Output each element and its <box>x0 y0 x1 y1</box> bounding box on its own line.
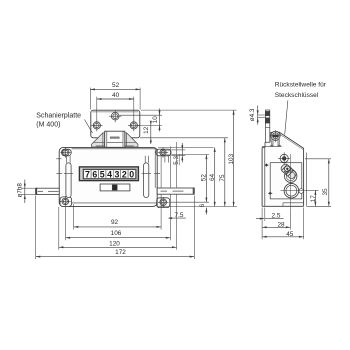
mounting tab top-right <box>156 149 171 156</box>
dimension 172 <box>36 256 195 258</box>
extension line 120 left <box>58 207 60 250</box>
dimension 75 <box>224 138 226 207</box>
body right edge through top tab <box>156 149 158 156</box>
logo plate <box>100 184 130 191</box>
dimension 64 <box>214 147 216 206</box>
hinge plate inner top line <box>92 111 138 113</box>
extension line 92 left <box>73 204 75 230</box>
dimension 17 <box>314 190 316 206</box>
body top seam line <box>72 148 156 150</box>
screw, body bottom-left <box>60 196 71 207</box>
side body left edge <box>261 147 263 206</box>
screw housing left wall <box>269 132 271 142</box>
side inner panel <box>270 163 302 199</box>
side body base seam <box>262 146 281 148</box>
side body roof slant <box>279 132 304 148</box>
dimension 106 <box>66 237 171 239</box>
extension line 120 right <box>176 142 178 188</box>
extension lines for dim 40 <box>96 97 98 121</box>
slot center tick left edge <box>56 173 62 175</box>
screw, body bottom-right <box>158 197 169 208</box>
screw, side mechanism top <box>280 154 288 162</box>
extension line side right edge down <box>303 208 305 240</box>
front view: counter housing body <box>59 147 157 206</box>
extension line plate top (dim 103) <box>141 109 237 111</box>
svg-text:106: 106 <box>111 230 122 237</box>
mounting tab bottom-left <box>60 197 72 207</box>
dimension 52 (vertical) <box>205 155 207 203</box>
svg-text:28: 28 <box>277 221 285 228</box>
extension line center screw (dim 10) <box>120 114 163 116</box>
hinge mount right wedge <box>125 133 138 147</box>
leader line Schanierplatte <box>85 120 93 134</box>
counter display outer frame <box>79 167 138 181</box>
tab screw channel below top-right tab <box>164 156 166 163</box>
reset shaft knurl lower <box>265 118 269 124</box>
svg-text:45: 45 <box>286 231 294 238</box>
extension line wheel center right <box>306 189 319 191</box>
leader line Rueckstellwelle <box>285 100 288 134</box>
pedestal foot left <box>270 145 274 146</box>
hinge mount wedge edge right <box>126 133 128 146</box>
side body cover plate line (2.5) <box>264 148 266 207</box>
right guide slot <box>144 163 149 198</box>
dimension 4.3 line <box>257 106 259 125</box>
hinge mount wedge edge left <box>102 133 104 146</box>
reset shaft section tick <box>265 126 269 128</box>
digit cells 7654320 <box>84 170 91 179</box>
left shaft end cap <box>36 188 38 195</box>
tab channel lines top-left <box>66 156 68 163</box>
screw cross tick horizontal <box>270 135 280 137</box>
mounting tab top-left <box>62 149 72 156</box>
extension line 172 left <box>35 196 37 260</box>
reset shaft (Rueckstellwelle) <box>265 110 269 142</box>
svg-text:6: 6 <box>92 170 97 180</box>
top screw slot dark bar <box>273 135 278 138</box>
big wheel inner <box>286 185 297 196</box>
right drive shaft <box>157 188 194 194</box>
big wheel outer <box>284 183 299 198</box>
screw, hinge plate left <box>91 120 103 132</box>
side body right edge <box>303 148 305 206</box>
extension line 172 right <box>193 196 195 260</box>
dimension 52 (top) <box>90 88 140 90</box>
right shaft centerline dashes <box>161 190 168 192</box>
top screw head side view <box>271 131 280 140</box>
svg-text:2.5: 2.5 <box>272 212 281 219</box>
body right edge through bottom tab <box>156 198 158 207</box>
mounting tab bottom-right <box>157 198 170 208</box>
left guide slot <box>66 163 71 198</box>
dimension 2.5 arrow and leader <box>256 218 264 220</box>
svg-text:0: 0 <box>129 170 134 180</box>
side body bottom seam <box>283 202 304 204</box>
orientation mark lower <box>269 192 272 195</box>
extension line 106 left <box>65 207 67 240</box>
extension line cover plate down <box>264 208 266 222</box>
actuator nub <box>299 189 304 194</box>
svg-text:75: 75 <box>219 174 226 182</box>
middle cam circle outer <box>285 170 297 182</box>
svg-text:ø4.3: ø4.3 <box>249 108 256 121</box>
side body bottom <box>262 205 304 207</box>
svg-text:40: 40 <box>112 92 120 99</box>
svg-text:2: 2 <box>122 170 127 180</box>
dimension 12 line <box>150 122 152 145</box>
hinge knuckle slot dash <box>110 137 119 139</box>
svg-text:7.5: 7.5 <box>175 212 184 219</box>
svg-text:ø7h8: ø7h8 <box>17 183 24 198</box>
svg-text:64: 64 <box>209 173 216 181</box>
extension line top screw center right <box>305 158 331 160</box>
screw housing cap <box>270 131 279 133</box>
hinge mount stack line right <box>125 141 136 143</box>
pedestal leg left <box>271 139 273 146</box>
dimension 120 <box>59 246 177 248</box>
dimension 28 <box>262 226 290 228</box>
counter display inner area <box>83 169 136 179</box>
body right seam line <box>154 149 156 188</box>
svg-text:Steckschlüssel: Steckschlüssel <box>275 92 319 99</box>
extension line plate bottom (dim 12/75) <box>140 137 228 139</box>
svg-text:92: 92 <box>111 219 119 226</box>
svg-text:Schanierplatte: Schanierplatte <box>36 112 81 119</box>
orientation mark upper <box>265 163 268 166</box>
svg-text:3: 3 <box>115 170 120 180</box>
extension line tab slot (dim 52 vertical) <box>171 154 209 156</box>
right shaft end cap <box>192 188 194 195</box>
slot center tick left slot <box>64 173 73 175</box>
svg-text:17: 17 <box>310 195 317 203</box>
dimension 10 line <box>159 109 161 132</box>
hinge mount left wedge <box>92 133 105 147</box>
dimension 35 <box>328 159 330 207</box>
tab slot lines top-right <box>166 149 170 151</box>
side body step under shaft <box>265 141 270 143</box>
extension line mechanism axis down <box>289 210 291 230</box>
side body roof slant inner <box>279 134 303 150</box>
logo mark <box>112 185 117 190</box>
screw cross tick vertical <box>275 130 277 142</box>
extension line side screw (dim 10/12) <box>138 124 162 126</box>
hinge knuckle <box>105 131 125 147</box>
left shaft centerline dashes <box>38 190 43 192</box>
rocker lever <box>280 163 298 180</box>
svg-text:35: 35 <box>322 188 329 196</box>
extension lines for dim 52 top <box>89 88 91 110</box>
extension line side left edge down <box>261 208 263 240</box>
diameter 7h8 dimension arrows <box>24 180 26 204</box>
dimension 92 <box>74 226 161 228</box>
screw, hinge plate right <box>128 120 140 132</box>
left drive shaft <box>36 188 60 194</box>
rocker pivot small circle <box>285 166 291 172</box>
svg-text:120: 120 <box>109 241 120 248</box>
svg-text:5: 5 <box>100 170 105 180</box>
svg-text:4: 4 <box>107 170 112 180</box>
tick on left edge upper <box>56 158 61 160</box>
dimension 40 <box>97 98 134 100</box>
mechanism horizontal centerline <box>281 190 306 192</box>
pedestal leg right <box>277 140 279 146</box>
extension line bottom screw center <box>170 201 209 203</box>
dimension 103 <box>233 110 235 206</box>
screw, body top-right <box>158 147 168 157</box>
reset shaft cross pin lines <box>258 114 266 116</box>
side body top lip <box>262 146 265 148</box>
extension line 106 right <box>169 147 171 188</box>
svg-text:Rückstellwelle für: Rückstellwelle für <box>275 82 327 89</box>
extension line 92 right <box>160 156 162 188</box>
dimension 7.5 leader <box>169 217 186 219</box>
tab channel lines top-right <box>144 156 146 163</box>
reset shaft knurl upper <box>265 111 269 116</box>
side body right cover line <box>305 153 307 207</box>
screw, hinge plate center <box>109 110 121 122</box>
pedestal foot right <box>277 145 281 146</box>
svg-text:52: 52 <box>112 82 120 89</box>
side body left step vertical <box>264 142 266 147</box>
slot center tick right edge <box>154 173 160 175</box>
svg-text:10: 10 <box>152 116 159 124</box>
side view body white backing <box>262 132 304 206</box>
svg-text:6: 6 <box>199 203 206 207</box>
extension line side bottom right <box>307 205 332 207</box>
dimension 6 arrow <box>205 208 207 215</box>
svg-text:12: 12 <box>143 126 150 134</box>
middle cam circle inner <box>286 172 295 181</box>
svg-text:103: 103 <box>228 153 235 164</box>
hinge plate (Schanierplatte) <box>91 110 140 138</box>
svg-text:7: 7 <box>85 170 90 180</box>
body bottom seam line <box>60 202 157 204</box>
svg-text:172: 172 <box>115 249 126 256</box>
diameter 7h8 extension lines <box>21 187 35 189</box>
hinge mount stack line left <box>94 141 105 143</box>
dimension 45 <box>262 236 304 238</box>
screw, body top-left <box>60 147 71 158</box>
slot center tick right slot <box>142 173 151 175</box>
hinge mount base line <box>96 145 134 147</box>
dimension 5.3 line <box>181 143 183 163</box>
svg-text:(M 400): (M 400) <box>36 121 60 128</box>
dim text 5.3 underline <box>178 154 180 165</box>
svg-text:52: 52 <box>201 174 208 182</box>
extension line body bottom <box>157 206 237 208</box>
extension lines dim 5.3 tab slot <box>171 149 185 151</box>
extension line body top (dim 64) <box>158 146 214 148</box>
mechanism vertical centerline <box>289 154 291 210</box>
